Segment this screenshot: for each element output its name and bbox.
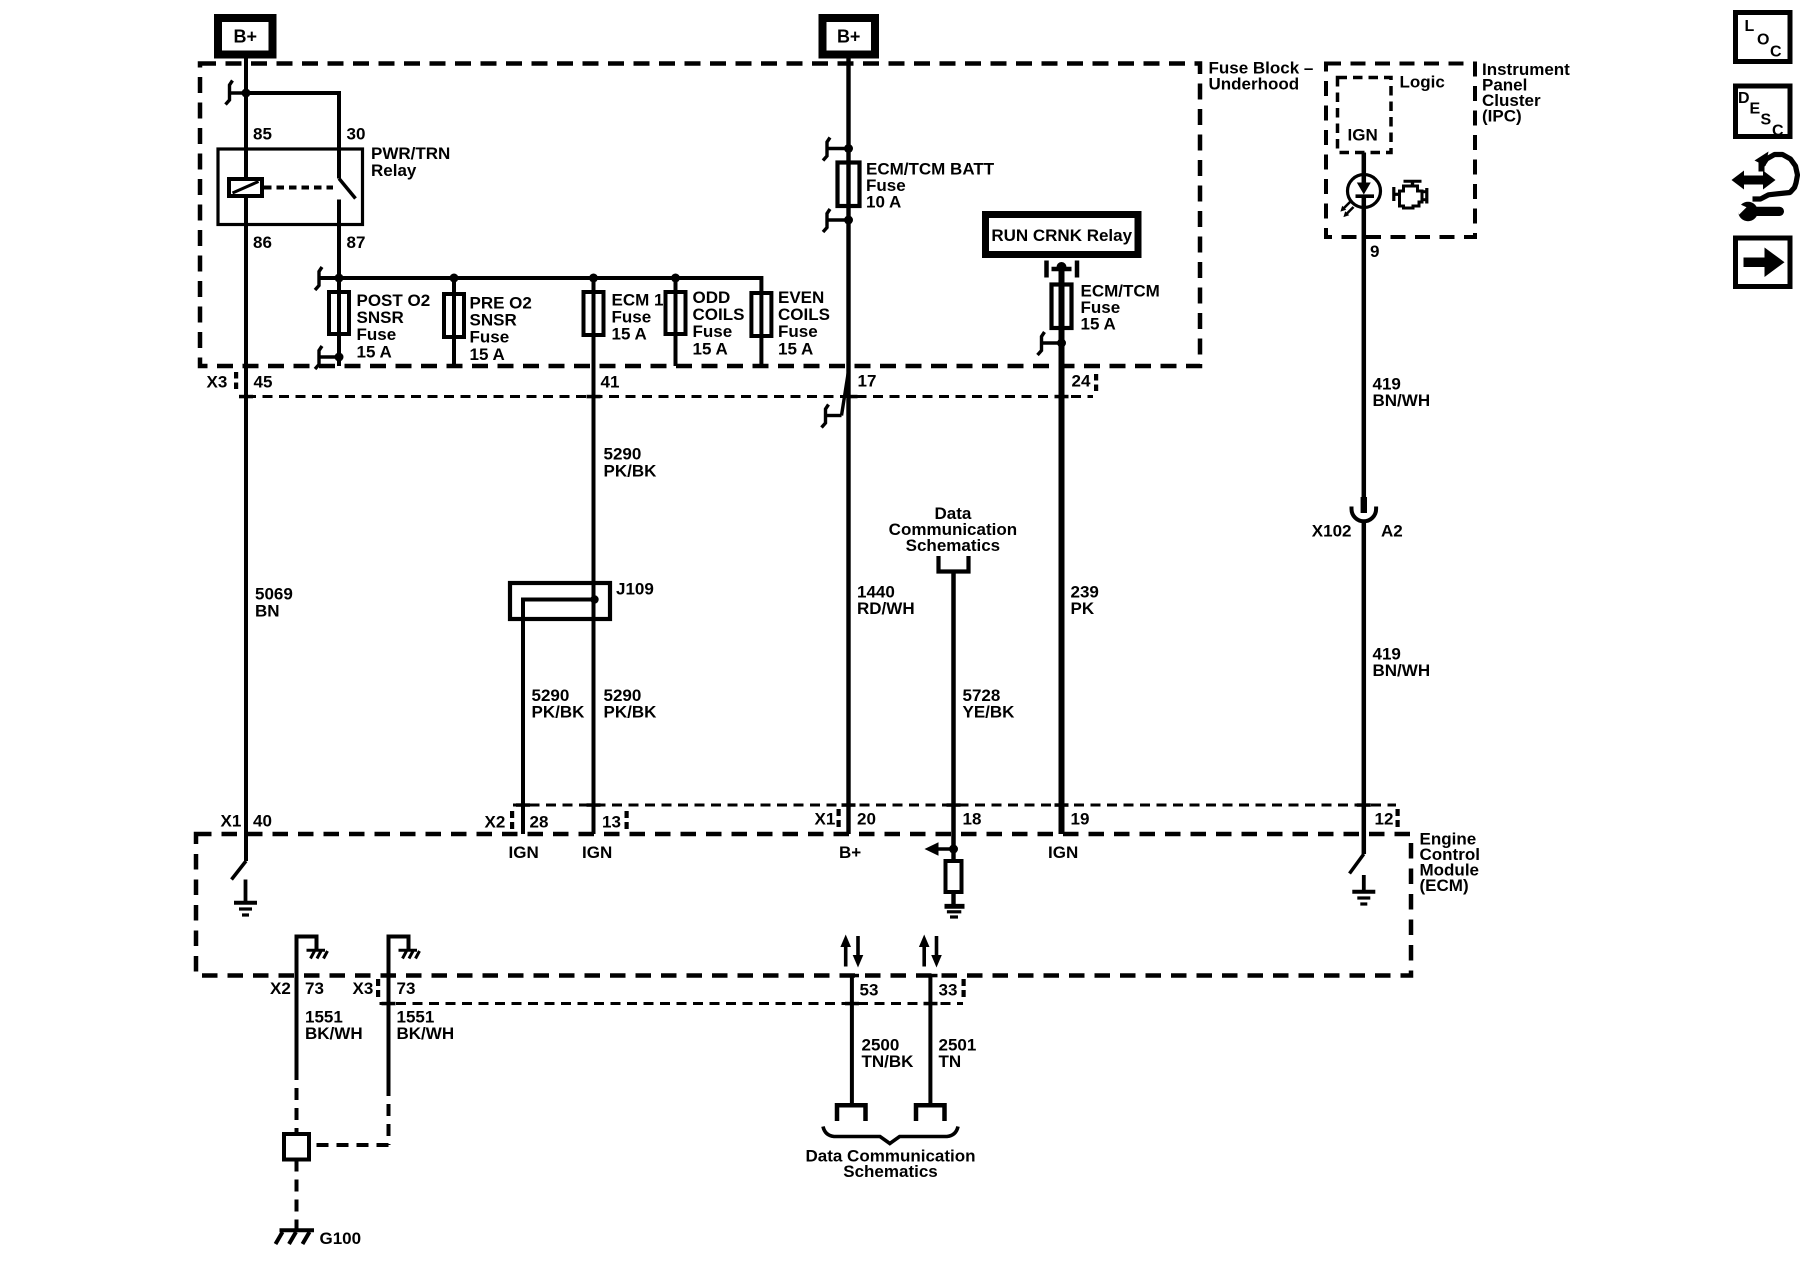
icon box DESC [1736,86,1791,140]
junction node POST O2 output [335,353,344,362]
connector row X3 (fuse block) [246,395,1093,398]
clip splice below POST O2 fuse [315,346,339,369]
svg-text:BN/WH: BN/WH [1373,661,1431,680]
connector bracket row-F right end [962,979,966,997]
svg-text:24: 24 [1072,372,1091,391]
svg-text:X3: X3 [207,373,228,392]
svg-text:40: 40 [253,812,272,831]
connector bracket X3 [234,372,238,389]
icon data exchange / tools [1732,152,1798,222]
ECM ground pigtail X2-73 [295,937,317,976]
splice J109 [510,583,610,834]
wire: RUN CRNK relay / ECM/TCM fuse / 239 PK to ECM X1-19 [1059,265,1065,834]
svg-text:BK/WH: BK/WH [305,1024,363,1043]
fuse ECM/TCM body [1052,285,1072,329]
fuse PRE O2 SNSR body [444,294,464,337]
wire: EVEN COILS fuse output [759,293,763,366]
svg-text:73: 73 [397,979,416,998]
svg-text:B+: B+ [837,27,861,47]
svg-text:X2: X2 [485,813,506,832]
check engine icon in IPC [1394,181,1427,208]
svg-text:PK: PK [1071,599,1095,618]
ground G100 [276,1230,315,1244]
junction node PRE O2 on bus [450,274,459,283]
svg-text:O: O [1757,32,1769,49]
svg-text:X1: X1 [221,812,242,831]
RUN CRNK Relay label box [986,215,1139,255]
svg-text:Fuse: Fuse [693,322,733,341]
clip splice below ECM/TCM BATT fuse [823,209,849,232]
off-page terminator pin 53 wire [837,1105,866,1121]
PWR/TRN relay box [218,149,363,225]
fuse EVEN COILS body [751,293,771,336]
fuse POST O2 SNSR body [329,292,349,334]
fuse block underhood box [200,64,1200,367]
svg-text:19: 19 [1071,810,1090,829]
ground splice block [284,1134,309,1160]
svg-text:B+: B+ [839,843,861,862]
chassis ground hatch at pigtail X3-73 [399,950,420,958]
clip splice at B+ node [226,81,247,105]
wire: dashed branch into ground splice [309,1143,389,1147]
wire: splice to G100 [295,1160,299,1232]
svg-text:Schematics: Schematics [843,1162,938,1181]
svg-text:Underhood: Underhood [1209,75,1300,94]
svg-text:Fuse: Fuse [357,325,397,344]
connector bracket X3-73 [376,979,380,997]
bracket: data communication schematics takeout [939,556,969,572]
svg-text:53: 53 [860,981,879,1000]
svg-text:28: 28 [530,813,549,832]
svg-text:Fuse: Fuse [470,328,510,347]
svg-text:85: 85 [253,125,272,144]
svg-text:X3: X3 [353,979,374,998]
ground symbol below resistor [945,906,965,917]
svg-text:A2: A2 [1381,522,1403,541]
svg-text:87: 87 [347,233,366,252]
wire: PRE O2 fuse output [452,278,456,366]
svg-text:Logic: Logic [1400,73,1445,92]
pin ticks on connector rows [239,395,1371,1006]
svg-text:YE/BK: YE/BK [963,703,1016,722]
IPC box [1326,64,1475,238]
svg-text:Fuse: Fuse [778,322,818,341]
svg-text:X102: X102 [1312,522,1352,541]
ECM internal left arrow at pin 18 [925,842,959,855]
MIL indicator LED in IPC [1348,175,1381,208]
connector row X1/X2 (ECM top) [513,804,1396,807]
ECM ground pigtail X3-73 [387,937,409,976]
junction node ECM1 on bus [589,274,598,283]
ECM internal switch at pin 12 [1350,854,1364,874]
svg-text:TN: TN [939,1052,962,1071]
svg-text:12: 12 [1375,810,1394,829]
svg-text:L: L [1745,18,1755,35]
svg-text:73: 73 [305,979,324,998]
wire: 1551 BK/WH from X2-73 [295,976,299,1069]
svg-text:C: C [1772,123,1784,140]
ECM internal terminating resistor at pin 18 [946,849,962,904]
junction node B+/relay [242,89,251,98]
wire: POST O2 fuse output to X3 row [337,278,341,366]
ECM box [196,834,1411,976]
clip splice above ECM/TCM BATT fuse [823,138,849,161]
svg-text:IGN: IGN [582,843,612,862]
ground symbol inside ECM below pin 40 [234,880,257,916]
off-page terminator pin 33 wire [916,1105,945,1121]
svg-text:BN/WH: BN/WH [1373,391,1431,410]
junction node ODD COILS on bus [671,274,680,283]
svg-text:15 A: 15 A [693,340,728,359]
junction node relay 87 / bus [335,274,344,283]
svg-text:15 A: 15 A [357,343,392,362]
svg-text:BK/WH: BK/WH [397,1024,455,1043]
svg-text:RUN CRNK Relay: RUN CRNK Relay [991,226,1132,245]
svg-text:33: 33 [939,981,958,1000]
svg-text:15 A: 15 A [470,345,505,364]
IGN logic box [1338,78,1392,153]
icon box LOC [1736,13,1791,62]
svg-text:9: 9 [1370,242,1379,261]
wire: B+ feed to PWR/TRN relay pin 85 / coil / pin 86 / X3-45 / 5069 BN to ECM X1-40 [244,54,248,861]
svg-text:41: 41 [601,373,620,392]
svg-text:15 A: 15 A [612,325,647,344]
svg-text:13: 13 [602,813,621,832]
wire: relay pin 87 down to fuse bus [337,200,341,279]
wire: 2500 TN/BK serial data pin 53 [850,976,854,1104]
svg-text:X1: X1 [815,810,836,829]
fuse ODD COILS body [666,292,686,334]
wire: branch node to relay pin 30 [246,93,339,179]
svg-text:10 A: 10 A [866,193,901,212]
connector row ECM bottom [380,1002,964,1005]
wire: 419 BN/WH to ECM pin 12 [1362,521,1367,854]
connector bracket right of pin 13 [625,811,629,829]
svg-text:J109: J109 [616,580,654,599]
svg-text:S: S [1761,112,1772,129]
svg-text:D: D [1738,90,1750,107]
svg-text:X2: X2 [270,979,291,998]
LED emission arrows [1343,202,1354,215]
svg-text:17: 17 [858,372,877,391]
wire: 1551 BK/WH from X3-73 [387,976,391,1085]
wire: B+ right feed / ECM/TCM BATT fuse / 1440 RD/WH to ECM X1-20 [846,54,850,834]
svg-text:C: C [1770,44,1782,61]
fuse ECM/TCM BATT body [838,163,860,207]
brace data communication schematics [823,1127,958,1144]
svg-text:E: E [1750,101,1761,118]
connector bracket row-B right end [1094,374,1098,391]
svg-text:G100: G100 [320,1229,362,1248]
fuse ECM 1 body [584,292,604,335]
svg-text:45: 45 [254,373,273,392]
B+ terminal box right [823,18,876,55]
svg-text:B+: B+ [234,27,258,47]
svg-text:Relay: Relay [371,161,417,180]
bidirectional arrows at pin 53 [840,935,863,968]
icon box forward arrow [1736,238,1791,287]
svg-text:15 A: 15 A [778,340,813,359]
chassis ground hatch at pigtail X2-73 [307,950,328,958]
PWR/TRN relay coil [229,179,262,196]
svg-text:IGN: IGN [1048,843,1078,862]
svg-text:(ECM): (ECM) [1420,876,1469,895]
svg-text:86: 86 [253,233,272,252]
connector bracket right of pin 12 [1396,809,1400,827]
in-line connector X102 terminal A2 [1352,497,1377,521]
wire: ODD COILS fuse output [674,278,678,366]
svg-text:15 A: 15 A [1081,315,1116,334]
svg-text:30: 30 [347,125,366,144]
clip splice takeout at pin 17 [822,371,849,428]
svg-text:Schematics: Schematics [906,536,1001,555]
wire: ECM 1 fuse / 5290 PK/BK down through J109 to ECM X2-13 [592,278,596,834]
RUN CRNK relay output terminal [1047,261,1078,278]
connector bracket X2 (pin 28) [510,811,514,829]
PWR/TRN relay actuation dashed link [264,186,333,190]
PWR/TRN relay switch contact [339,179,356,199]
svg-text:PK/BK: PK/BK [532,703,586,722]
bidirectional arrows at pin 33 [919,935,942,968]
wire: IPC IGN output 419 BN/WH [1362,153,1367,176]
B+ terminal box left [218,18,273,55]
ground symbol inside ECM below pin 12 [1352,875,1375,904]
svg-text:BN: BN [255,602,280,621]
svg-text:PK/BK: PK/BK [604,462,658,481]
clip splice below ECM/TCM fuse [1038,332,1062,355]
wire: 5728 YE/BK data link to ECM X1-18 [951,572,956,851]
ECM internal switch at pin 40 [232,861,247,880]
svg-text:IGN: IGN [509,843,539,862]
clip splice at fuse bus start [315,267,339,290]
wire: fuse bus in fuse block [319,278,762,293]
svg-text:IGN: IGN [1348,126,1378,145]
svg-text:20: 20 [857,810,876,829]
svg-text:TN/BK: TN/BK [862,1052,915,1071]
svg-text:PK/BK: PK/BK [604,703,658,722]
svg-text:(IPC): (IPC) [1482,107,1522,126]
svg-text:RD/WH: RD/WH [857,599,915,618]
wire: 2501 TN serial data pin 33 [928,976,932,1104]
connector bracket X1 (pin 20) [837,809,841,827]
svg-text:18: 18 [963,810,982,829]
